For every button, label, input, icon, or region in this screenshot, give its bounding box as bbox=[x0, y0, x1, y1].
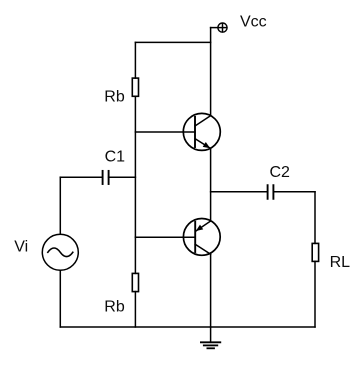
wire main column bottom (Q2 collector to rail) bbox=[210, 254, 212, 327]
wire right column upper bbox=[314, 192, 316, 244]
svg-text:Rb: Rb bbox=[104, 299, 125, 316]
ground bbox=[201, 327, 220, 348]
resistor Rb (upper) bbox=[132, 78, 138, 96]
svg-text:Vi: Vi bbox=[14, 238, 28, 255]
resistor RL bbox=[312, 243, 318, 261]
svg-text:Vcc: Vcc bbox=[240, 14, 267, 31]
wire base column upper bbox=[134, 42, 136, 78]
wire right column lower bbox=[314, 261, 316, 327]
svg-text:RL: RL bbox=[330, 254, 351, 271]
wire Q1 base bbox=[135, 131, 195, 133]
transistor Q1 (NPN) bbox=[183, 113, 220, 150]
wire C2 branch left bbox=[211, 191, 268, 193]
source Vi bbox=[42, 234, 78, 270]
wire base column middle bbox=[134, 96, 136, 273]
wire top rail bbox=[135, 41, 210, 43]
capacitor C2 bbox=[268, 185, 274, 199]
svg-text:C1: C1 bbox=[105, 148, 126, 165]
svg-text:Rb: Rb bbox=[104, 88, 125, 105]
wire left column lower bbox=[59, 270, 61, 327]
wire left column upper bbox=[59, 177, 61, 234]
wire base column lower bbox=[134, 292, 136, 327]
capacitor C1 bbox=[103, 171, 109, 184]
resistor Rb (lower) bbox=[132, 273, 138, 291]
wire Vcc jog bbox=[211, 27, 218, 29]
wire C2 branch right bbox=[273, 191, 315, 193]
wire bottom rail bbox=[60, 326, 315, 328]
transistor Q2 (PNP) bbox=[183, 219, 220, 256]
svg-text:C2: C2 bbox=[270, 164, 291, 181]
Vcc terminal bbox=[218, 23, 227, 32]
wire C1 left bbox=[60, 176, 102, 178]
wire main column middle (emitters junction) bbox=[210, 149, 212, 222]
wire main column top (Vcc to Q1 collector) bbox=[210, 28, 212, 116]
wire Q2 base bbox=[135, 236, 195, 238]
wire C1 right bbox=[109, 176, 136, 178]
